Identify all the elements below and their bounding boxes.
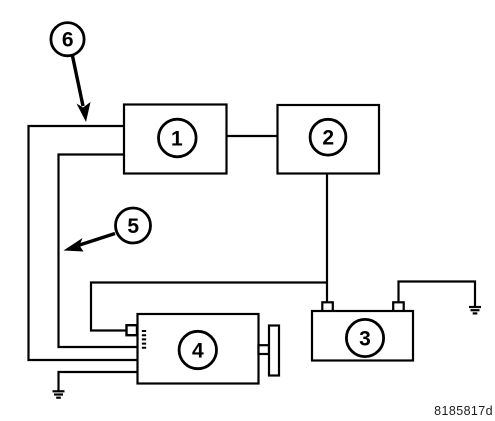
box 4 [138, 314, 259, 384]
svg-text:2: 2 [322, 127, 334, 150]
box 3 right terminal [393, 302, 404, 311]
svg-text:1: 1 [171, 127, 183, 150]
svg-text:5: 5 [127, 215, 139, 238]
wire from box 1 left pin to long left vertical run into box 4 (net 6) [29, 126, 139, 360]
leader arrow for callout 5 [64, 234, 116, 252]
wire between box 1 and box 2 [226, 135, 278, 137]
box 4 right mounting tab [259, 345, 270, 354]
box 3 left terminal [322, 302, 333, 311]
callout circle 2 [310, 119, 346, 155]
wire from box 1 lower-left pin down to box 4 (net 5) [59, 155, 139, 348]
wire from box 2 bottom down to box 3 left terminal [326, 172, 328, 303]
box 2 [278, 105, 380, 174]
callout circle 3 [346, 319, 383, 356]
svg-text:8185817d: 8185817d [434, 404, 493, 418]
svg-text:4: 4 [192, 339, 204, 362]
wire from box 4 lower-left pin to left ground [59, 372, 139, 391]
callout circle 1 [159, 119, 197, 157]
callout circle 6 [51, 23, 84, 56]
right ground symbol [469, 307, 481, 313]
box 4 internal pin row (dashed) [142, 330, 146, 349]
wire from box 3 right terminal to right ground [399, 282, 476, 307]
left ground symbol [53, 391, 65, 397]
callout circle 5 [116, 208, 151, 243]
svg-text:3: 3 [359, 327, 371, 350]
box 1 [124, 105, 227, 174]
leader arrow for callout 6 [73, 56, 91, 122]
callout circle 4 [179, 331, 216, 368]
wire from box 3 feed tee left and down to box 4 connector [91, 283, 327, 331]
box 3 [312, 311, 413, 361]
box 4 right bracket bar [269, 326, 279, 376]
box 4 left connector lug [127, 325, 138, 335]
svg-text:6: 6 [62, 29, 74, 52]
